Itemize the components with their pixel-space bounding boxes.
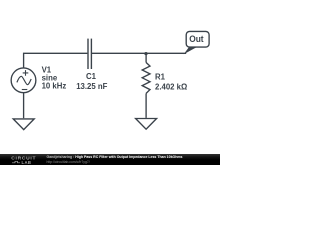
svg-text:LAB: LAB: [22, 159, 32, 164]
svg-text:13.25 nF: 13.25 nF: [76, 82, 107, 91]
svg-text:10 kHz: 10 kHz: [42, 81, 67, 90]
svg-text:2.402 kΩ: 2.402 kΩ: [155, 82, 187, 91]
svg-text:R1: R1: [155, 72, 166, 81]
svg-text:C1: C1: [86, 72, 97, 81]
svg-text:Out: Out: [189, 34, 204, 45]
